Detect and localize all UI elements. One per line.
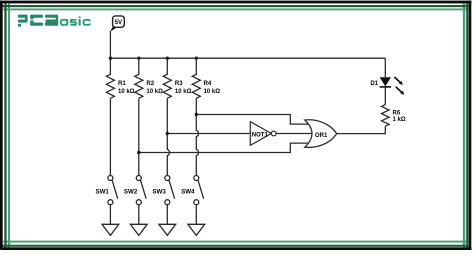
ground 1 (102, 224, 119, 235)
resistor R2 (135, 58, 143, 98)
wire OR top input from node 4 (196, 115, 310, 125)
svg-text:R2: R2 (146, 81, 154, 87)
wire top rail (110, 57, 385, 59)
svg-text:SW1: SW1 (95, 188, 109, 195)
gate OR1 (305, 120, 337, 148)
svg-text:1 kΩ: 1 kΩ (393, 117, 406, 123)
svg-text:NOT1: NOT1 (252, 133, 269, 139)
svg-text:10 kΩ: 10 kΩ (204, 89, 221, 95)
wire 5V stem (109, 31, 111, 58)
node tap column 4 (195, 113, 198, 116)
svg-text:SW3: SW3 (152, 188, 166, 195)
wire column 2 (138, 98, 140, 175)
wire rail to LED (384, 58, 386, 77)
switch SW4 (194, 176, 204, 225)
logo PCBasic (18, 15, 92, 27)
ground 4 (188, 224, 205, 235)
ground 2 (130, 224, 147, 235)
svg-text:10 kΩ: 10 kΩ (175, 89, 192, 95)
wire OR output to R6 (337, 126, 386, 133)
node tap column 3 (166, 132, 169, 135)
svg-text:5V: 5V (115, 19, 123, 26)
node rail junction 1 (109, 57, 112, 60)
svg-text:R4: R4 (204, 81, 212, 87)
svg-text:R3: R3 (175, 81, 183, 87)
svg-text:SW2: SW2 (124, 188, 138, 195)
svg-text:10 kΩ: 10 kΩ (146, 89, 163, 95)
node tap column 2 (137, 151, 140, 154)
wire NOT input from node 3 (167, 133, 250, 135)
resistor R4 (192, 58, 200, 98)
wire column 3 with hop (167, 98, 169, 175)
svg-text:R6: R6 (393, 111, 401, 117)
node rail junction 4 (195, 57, 198, 60)
diode D1 LED (370, 77, 391, 104)
resistor R6 (382, 105, 390, 127)
op-amp NOT1 gate (250, 122, 276, 146)
svg-text:R1: R1 (118, 81, 126, 87)
switch SW2 (136, 176, 146, 225)
switch SW3 (165, 176, 175, 225)
wire column 1 (109, 98, 111, 175)
svg-text:SW4: SW4 (181, 188, 195, 195)
resistor R3 (163, 58, 171, 98)
ground 3 (159, 224, 176, 235)
resistor R1 (106, 58, 114, 98)
svg-text:OR1: OR1 (315, 133, 328, 139)
LED arrow 2 (396, 87, 404, 95)
switch SW1 (108, 176, 118, 225)
power flag 5V (110, 16, 124, 32)
node rail junction 2 (137, 57, 140, 60)
wire NOT output (276, 133, 313, 135)
svg-text:D1: D1 (370, 81, 378, 87)
node rail junction 3 (166, 57, 169, 60)
svg-text:10 kΩ: 10 kΩ (118, 89, 135, 95)
wire column 4 with hops (196, 98, 198, 175)
LED arrow 1 (394, 77, 402, 85)
wire OR bottom input from node 2 (139, 143, 311, 152)
